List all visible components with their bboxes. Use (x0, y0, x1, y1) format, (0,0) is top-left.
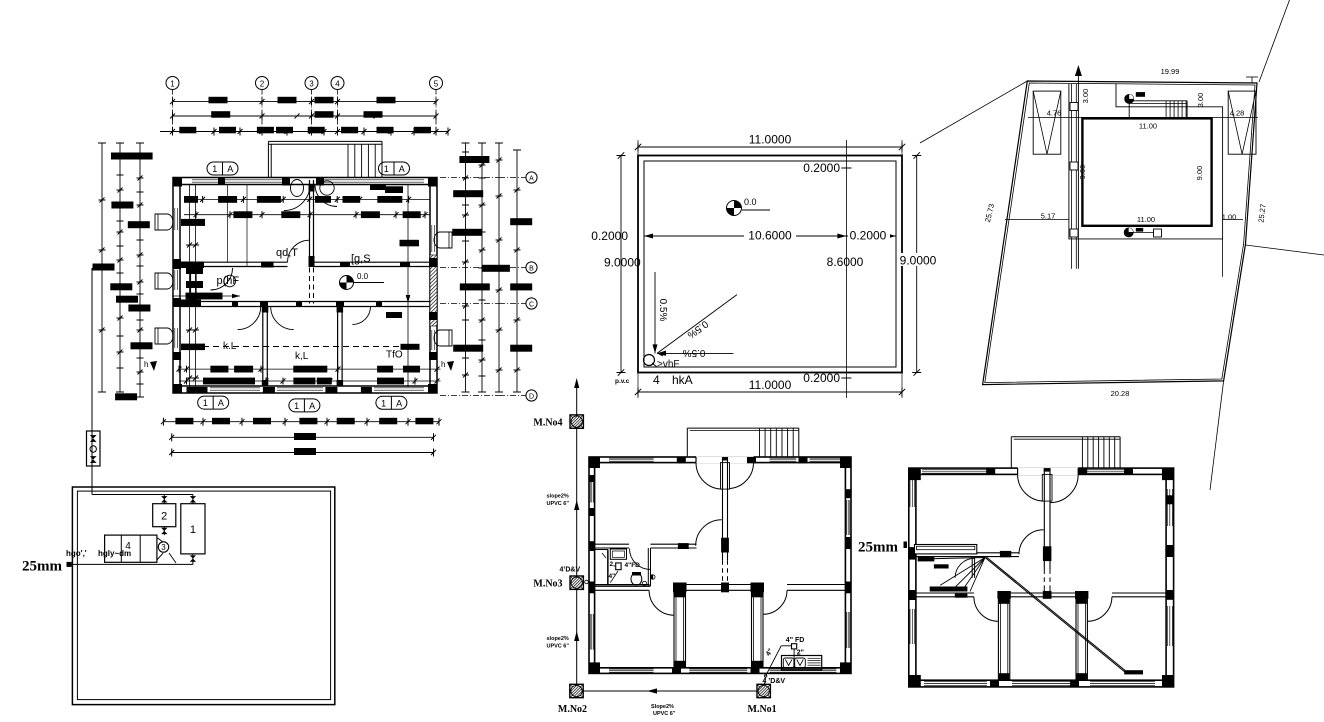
stairs site (1129, 100, 1187, 102)
full horizontal wall lower (916, 592, 1166, 594)
label 0.2000 mid right (848, 228, 890, 241)
svg-text:h: h (441, 360, 445, 369)
north symbol plan1 (340, 276, 354, 290)
left dimension chain x=102 (101, 143, 103, 392)
outer wall (173, 178, 437, 394)
outer wall rectangle (909, 468, 1174, 687)
central wall bottom junction block (1043, 591, 1052, 599)
site boundary quad outer (983, 81, 1257, 385)
interior h-chain y381 (179, 380, 441, 382)
entrance door arcs (1018, 474, 1045, 501)
manhole M.No1 (757, 684, 770, 697)
section tag top-left (207, 162, 238, 175)
svg-text:0.5%: 0.5% (682, 347, 705, 358)
stairs top (268, 140, 382, 142)
right dim line 9.0000 (916, 156, 918, 373)
kitchen drainboard (808, 657, 821, 659)
svg-text:5.17: 5.17 (1041, 212, 1056, 221)
bubble A (499, 177, 526, 179)
left dimension chain x=140 (139, 143, 141, 397)
entrance opening white gap (1018, 467, 1079, 475)
bathroom fixtures (224, 275, 236, 287)
right dimension chain x=499 (498, 143, 500, 392)
plan4 group (22, 268, 335, 705)
bathroom diagonal pipe (610, 571, 618, 583)
bubble C (499, 303, 526, 305)
svg-text:D: D (529, 394, 534, 401)
svg-text:11.00: 11.00 (1139, 122, 1157, 131)
slope horizontal line (657, 352, 733, 354)
svg-text:0.2000: 0.2000 (850, 229, 887, 243)
grid bubble 5 (430, 77, 443, 90)
bathroom toilet (631, 573, 642, 586)
central wall entrance block (1044, 468, 1051, 472)
bathroom partition line (607, 550, 609, 586)
adjacent parcel line (1246, 245, 1324, 255)
pipe horizontal top (92, 494, 193, 496)
svg-text:B: B (529, 266, 534, 273)
top dimension row 2 (173, 115, 437, 117)
valve below tank2 (163, 527, 165, 535)
tree left (1033, 91, 1061, 154)
entrance door leaf rect (1042, 474, 1052, 501)
wall pier blocks top (282, 178, 290, 186)
horizontal line through site upper (1028, 116, 1258, 118)
mid room door arc (1019, 530, 1044, 555)
svg-text:3.00: 3.00 (1081, 89, 1090, 104)
lower-right vertical wall (1076, 597, 1087, 680)
grid bubble 3 (305, 77, 318, 90)
svg-text:0.2000: 0.2000 (591, 229, 628, 243)
svg-text:A: A (529, 176, 534, 183)
kitchen sink plan5 (782, 656, 822, 671)
plan1 house (144, 141, 454, 412)
house compound outline (1069, 84, 1223, 239)
top dimension row 3 (160, 131, 448, 133)
slope arrow lower (574, 631, 579, 641)
svg-text:19.99: 19.99 (1161, 67, 1180, 76)
svg-text:2": 2" (797, 649, 804, 656)
right dimension chain x=517 (516, 150, 518, 392)
svg-text:2: 2 (260, 80, 265, 89)
svg-text:4": 4" (609, 573, 616, 580)
interior wall horizontal upper (196, 261, 288, 263)
left dimension chain x=120 (119, 143, 121, 392)
sewer pipe vertical (576, 381, 578, 415)
manhole M.No3 (570, 576, 583, 589)
central wall bottom junction block (721, 583, 729, 593)
house bottom extension lines (1005, 219, 1069, 221)
section tag bottom 1 (198, 396, 229, 409)
svg-text:4ʽD&V: 4ʽD&V (560, 567, 581, 574)
mid room door arc (696, 520, 722, 546)
grid leader lines (172, 90, 174, 136)
svg-text:4"FD: 4"FD (625, 562, 641, 569)
interior h-chain y214 (184, 214, 430, 216)
svg-text:4: 4 (653, 373, 660, 387)
supply pipe vertical (91, 268, 93, 495)
right horizontal dashdot lines (440, 177, 499, 179)
bathroom right wall (647, 548, 649, 586)
svg-text:M.No3: M.No3 (533, 579, 562, 590)
tiny labels plan6 (918, 556, 935, 561)
svg-text:25mm: 25mm (22, 559, 62, 575)
entrance door arcs (696, 463, 723, 490)
interior h-chain y369 (179, 368, 441, 370)
svg-text:A: A (309, 401, 315, 411)
wall blocks and windows (909, 468, 921, 480)
entrance door arcs (284, 185, 310, 211)
svg-text:k.L: k.L (223, 341, 237, 352)
door arc qd room (288, 240, 310, 262)
stairs (1011, 436, 1120, 438)
grid bubble 2 (256, 77, 269, 90)
interior wall vertical lower-left (262, 307, 264, 387)
left dim line 9.0000 (620, 156, 622, 373)
interior wall horizontal lower (180, 301, 430, 303)
lower wall door gaps (974, 592, 999, 597)
bathroom floor drain (616, 563, 621, 570)
central vertical wall (1043, 468, 1045, 569)
bottom dimension row B (172, 436, 434, 438)
svg-text:4.28: 4.28 (1230, 109, 1245, 118)
label 9.0000 right (898, 253, 940, 266)
svg-text:0.0: 0.0 (357, 272, 369, 281)
upper horizontal wall (916, 552, 1019, 554)
svg-text:0.5%: 0.5% (657, 299, 668, 322)
svg-text:9.0000: 9.0000 (900, 254, 937, 268)
svg-text:0.2000: 0.2000 (803, 371, 840, 385)
bathroom connection circles (642, 581, 646, 585)
svg-text:0.2000: 0.2000 (803, 161, 840, 175)
svg-text:UPVC 6": UPVC 6" (547, 644, 570, 650)
svg-text:p(hF: p(hF (217, 275, 240, 287)
svg-text:hgo',': hgo',' (66, 549, 87, 558)
svg-text:C: C (529, 302, 534, 309)
plan5 group (533, 378, 851, 717)
svg-text:4.76: 4.76 (1047, 109, 1062, 118)
extension verticals bottom (637, 373, 639, 399)
central wall mid junction block (1043, 546, 1052, 561)
svg-text:3.00: 3.00 (1196, 93, 1205, 108)
svg-text:20.28: 20.28 (1111, 389, 1130, 398)
svg-text:hgly~dm: hgly~dm (98, 549, 131, 558)
interior h-chain y296 (172, 295, 240, 297)
section tag top-right (379, 162, 410, 175)
bathroom door arc (630, 549, 651, 570)
north arrow site (1077, 72, 1079, 269)
interior wall vertical center (309, 180, 311, 262)
site boundary quad inner (985, 83, 1255, 383)
svg-text:UPVC 6": UPVC 6" (547, 501, 570, 507)
svg-text:k,L: k,L (295, 351, 309, 362)
svg-text:1: 1 (212, 164, 217, 174)
svg-text:A: A (227, 164, 233, 174)
svg-text:h: h (144, 360, 148, 369)
left wall stacked blobs (174, 262, 204, 269)
wall pier blocks left (173, 259, 181, 269)
boundary extension right-down (1210, 381, 1224, 490)
central wall mid junction block (721, 538, 729, 553)
wall hatch right section (430, 255, 437, 326)
lower wall door arcs (974, 597, 999, 622)
bubble B (499, 267, 526, 269)
outer rectangle (638, 156, 902, 373)
svg-text:3: 3 (309, 80, 314, 89)
section tag bottom 3 (376, 396, 407, 409)
upper horizontal wall (595, 543, 629, 545)
bubble D (499, 395, 526, 397)
vertical reference line (845, 140, 847, 398)
svg-text:Slope2%: Slope2% (651, 704, 674, 710)
top dimension row 1 (173, 101, 437, 103)
svg-text:slope2%: slope2% (547, 494, 569, 500)
north circle bottom (1124, 228, 1133, 237)
entrance opening white gap (696, 456, 754, 463)
svg-text:5: 5 (434, 80, 439, 89)
tree right (1228, 91, 1256, 154)
svg-text:2,: 2, (610, 561, 616, 568)
svg-text:M.No1: M.No1 (748, 704, 777, 715)
boundary extension top-right (1259, 0, 1290, 82)
wall pier blocks right (429, 258, 437, 267)
room extension lines (227, 185, 229, 263)
svg-text:1: 1 (381, 398, 386, 408)
right vertical line (1222, 239, 1224, 277)
fixtures right wall outside (434, 232, 452, 248)
wall window lines top (192, 179, 282, 181)
sewer pipe bottom (583, 690, 757, 692)
outer wall rectangle (589, 457, 851, 673)
svg-text:3: 3 (161, 543, 166, 552)
bathroom enclosure (595, 550, 608, 586)
svg-text:4 ʽD&V: 4 ʽD&V (763, 678, 786, 685)
entrance fixtures (291, 180, 304, 197)
svg-text:11.00: 11.00 (1137, 215, 1155, 224)
stub door arc (955, 558, 975, 578)
svg-text:2: 2 (161, 511, 167, 523)
svg-text:1: 1 (294, 401, 299, 411)
svg-text:9.0000: 9.0000 (604, 256, 641, 270)
slope arrow upper (574, 500, 579, 510)
svg-text:[g,S: [g,S (351, 253, 371, 265)
branch to tank 1 (192, 495, 194, 504)
svg-text:1: 1 (384, 164, 389, 174)
grid bubble 4 (331, 77, 344, 90)
extension verticals (637, 140, 639, 156)
svg-text:10.6000: 10.6000 (748, 229, 792, 243)
svg-text:A: A (396, 398, 402, 408)
left vertical double line (1071, 84, 1073, 269)
wall window lines bottom (210, 387, 260, 389)
interior dim line (644, 235, 896, 237)
svg-text:TfO: TfO (386, 350, 403, 361)
right dimension chain x=482 (481, 143, 483, 392)
tank room outer rect (72, 487, 334, 705)
pipe to tanks bottom (67, 562, 72, 567)
interior h-chain y199 (184, 198, 430, 200)
svg-text:4" FD: 4" FD (786, 637, 805, 644)
svg-text:>vhF: >vhF (657, 359, 680, 370)
label 10.6000 (744, 228, 796, 241)
svg-text:hkA: hkA (672, 373, 693, 387)
svg-text:1: 1 (203, 398, 208, 408)
interior v-chain pair (189, 185, 191, 388)
manhole M.No2 (570, 684, 583, 697)
plan6 group (858, 437, 1174, 687)
north symbol plan2 (727, 201, 742, 216)
tank 1 box (181, 504, 205, 554)
plan3 group (920, 0, 1324, 490)
section tag bottom 2 (289, 399, 320, 412)
north circle top (1125, 94, 1134, 103)
slope vertical line (654, 272, 656, 353)
bottom dimension row A (163, 421, 439, 423)
svg-text:M.No4: M.No4 (533, 418, 562, 429)
top dim line 11.0000 (638, 146, 902, 148)
wall pier blocks bottom (187, 387, 208, 393)
slope diagonal line (657, 295, 737, 354)
pump funnel (157, 538, 163, 543)
plan2 group (591, 133, 940, 399)
central wall entrance block (722, 457, 728, 461)
interior v-chain right (407, 185, 409, 388)
svg-text:11.0000: 11.0000 (749, 378, 792, 392)
lower wall door gaps (649, 584, 674, 591)
corner tick top-right (1251, 77, 1253, 84)
tank room inner rect (77, 491, 330, 699)
wall stub below wall1 (971, 557, 973, 578)
branch to tank 2 (163, 495, 165, 504)
svg-text:A: A (399, 164, 405, 174)
tank 2 box (153, 504, 176, 527)
house inner thick rect (1082, 118, 1211, 225)
svg-text:9.00: 9.00 (1195, 166, 1204, 181)
plan1 group (93, 77, 538, 457)
pipe long diagonal (985, 558, 1126, 674)
dashed corridor line (183, 346, 419, 348)
bottom dim line 11.0000 (638, 391, 902, 393)
svg-text:A: A (218, 398, 224, 408)
svg-text:1.00: 1.00 (1222, 213, 1237, 222)
lower-left vertical wall (674, 590, 686, 668)
wall window lines right (431, 225, 433, 252)
bathroom sink (610, 549, 626, 559)
svg-text:UPVC 6": UPVC 6" (653, 711, 676, 717)
wall corner blocks (173, 178, 182, 187)
pipe fan lines (940, 558, 985, 586)
lower-right vertical wall (752, 590, 764, 668)
grid bubble 1 (166, 77, 179, 90)
pump circle 3 (158, 542, 168, 552)
svg-text:1: 1 (190, 524, 196, 536)
svg-text:qd,T: qd,T (276, 247, 298, 259)
inner rectangle (644, 161, 896, 367)
svg-text:4: 4 (335, 80, 340, 89)
column markers (1070, 103, 1078, 111)
bathroom partition (190, 267, 192, 304)
wall window lines left (174, 208, 176, 230)
svg-text:1: 1 (170, 80, 175, 89)
svg-text:M.No2: M.No2 (558, 704, 587, 715)
right dimension chain x=465.5 (465, 143, 467, 392)
svg-text:0.0: 0.0 (744, 197, 757, 207)
svg-text:slope2%: slope2% (547, 636, 569, 642)
stairs (687, 427, 799, 429)
full horizontal wall lower (595, 584, 846, 586)
svg-text:11.0000: 11.0000 (749, 133, 792, 147)
interior wall vertical lower-right (337, 307, 339, 387)
wall blocks and windows (589, 457, 600, 468)
kitchen pipe diagonals (793, 649, 795, 668)
bottom dimension row C (172, 452, 434, 454)
entrance door leaf rect (721, 463, 730, 490)
floor drain circle (644, 355, 655, 366)
lower wall door arcs (649, 590, 674, 615)
bathroom door arc (211, 268, 233, 290)
boundary extension top-left (920, 81, 1027, 143)
svg-text:p.v.c: p.v.c (615, 378, 630, 385)
water pipe manifold rect (915, 545, 977, 554)
fixtures left wall outside (155, 214, 173, 230)
central vertical wall (722, 457, 724, 560)
water meter assembly box (87, 431, 101, 466)
lower-left vertical wall (998, 597, 1009, 680)
svg-text:8.6000: 8.6000 (827, 255, 864, 269)
svg-text:25mm: 25mm (858, 540, 898, 556)
pump unit box 4 (105, 535, 157, 562)
bathroom bottom wall (595, 584, 651, 586)
kitchen FD (792, 644, 797, 649)
manhole M.No4 (570, 415, 583, 428)
door arcs lower wall (238, 307, 261, 330)
svg-text:9.00: 9.00 (1078, 165, 1087, 180)
